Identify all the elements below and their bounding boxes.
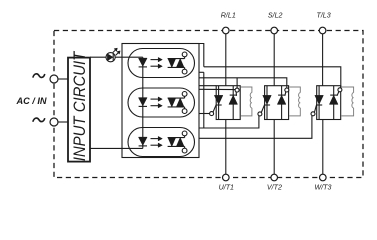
- SCR pair block phase 1: [214, 86, 240, 120]
- wire: T/L3 terminal down to SCR block: [322, 34, 324, 86]
- svg-text:V/T2: V/T2: [267, 184, 282, 192]
- snubber network phase 3: [341, 87, 353, 116]
- wire: R/L1 terminal down to SCR block: [225, 34, 227, 86]
- svg-text:U/T1: U/T1: [219, 184, 234, 192]
- svg-text:INPUT CIRCUIT: INPUT CIRCUIT: [71, 51, 89, 162]
- wire: SCR block down to V/T2 terminal: [273, 120, 275, 175]
- wire: opto box to phase-2 left gate: [199, 116, 259, 128]
- wire: SCR block down to W/T3 terminal: [322, 120, 324, 175]
- AC input terminal lower: [50, 118, 58, 126]
- snubber network phase 1: [241, 87, 252, 116]
- wire: LED chain return (bottom): [90, 147, 143, 149]
- SCR pair block phase 3: [315, 86, 341, 120]
- svg-text:W/T3: W/T3: [315, 184, 332, 192]
- wire: opto box to phase-1 left gate: [199, 113, 210, 115]
- snubber network phase 2: [289, 87, 300, 116]
- wire: lower AC terminal to input circuit: [58, 121, 68, 123]
- wire: upper AC terminal to input circuit: [58, 78, 68, 80]
- svg-text:S/L2: S/L2: [268, 12, 283, 20]
- optocoupler OC1: [128, 49, 195, 78]
- terminal V/T2: [267, 174, 282, 191]
- terminal S/L2: [268, 12, 283, 34]
- svg-text:R/L1: R/L1: [221, 12, 236, 20]
- wire: S/L2 terminal down to SCR block: [273, 34, 275, 86]
- svg-text:AC / IN: AC / IN: [15, 96, 46, 106]
- gate terminal (left SCR) phase 2: [258, 105, 264, 116]
- wire: input circuit to LED chain (top): [90, 56, 143, 58]
- gate terminal (right SCR) phase 2: [285, 88, 289, 96]
- wire: opto box corner jog down to gate bus A: [199, 44, 204, 67]
- terminal U/T1: [219, 174, 234, 191]
- wire: opto box to phase-1 block corner: [199, 85, 216, 87]
- indicator LED: [106, 48, 120, 62]
- wire: opto 1 output stub: [199, 71, 204, 73]
- optocoupler OC3: [128, 128, 195, 157]
- wire: gate bus A to phase-3 right gate: [204, 67, 341, 88]
- terminal R/L1: [221, 12, 236, 34]
- wire: opto box to phase-1 right gate (lower feed): [199, 88, 235, 90]
- input circuit block: [68, 51, 90, 162]
- optocoupler bank box: [122, 44, 199, 158]
- SCR pair block phase 2: [263, 86, 289, 120]
- AC tilde lower: [33, 118, 45, 122]
- svg-text:T/L3: T/L3: [316, 12, 330, 20]
- AC tilde upper: [33, 74, 45, 78]
- dashed enclosure border: [54, 31, 363, 178]
- gate terminal (right SCR) phase 3: [337, 88, 342, 96]
- optocoupler OC2: [128, 88, 195, 117]
- wire: drop C to phase-1 right gate: [236, 78, 238, 88]
- wire: LED series column: [142, 57, 144, 148]
- wire: drop from stub to lower gate bus: [203, 72, 205, 128]
- gate terminal (left SCR) phase 3: [311, 105, 316, 116]
- gate terminal (right SCR) phase 1: [235, 88, 239, 96]
- wire: SCR block down to U/T1 terminal: [225, 120, 227, 175]
- terminal T/L3: [316, 12, 330, 34]
- AC input terminal upper: [50, 75, 58, 83]
- wire: opto box to phase-3 left gate: [199, 116, 312, 138]
- wire: gate bus C to phase-1 and phase-2 right gates: [199, 78, 287, 88]
- gate terminal (left SCR) phase 1: [210, 105, 216, 115]
- terminal W/T3: [315, 174, 332, 191]
